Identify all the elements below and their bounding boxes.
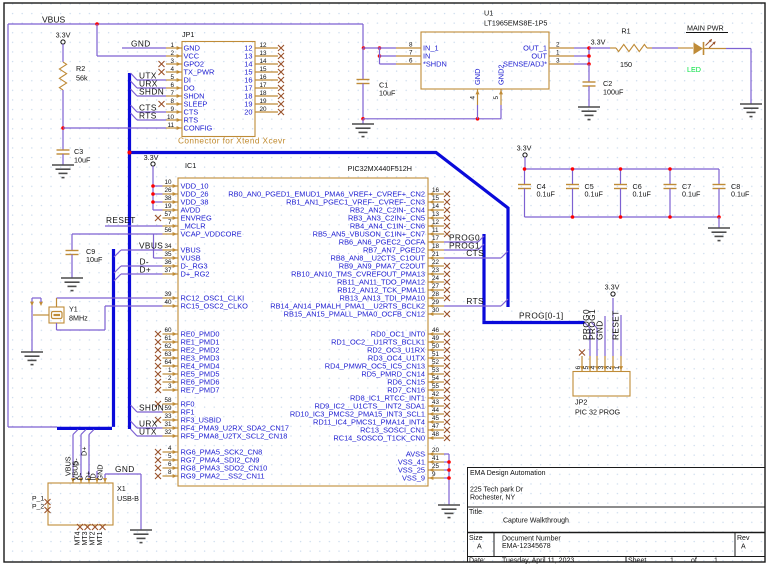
svg-text:19: 19	[164, 203, 172, 210]
svg-text:Rochester, NY: Rochester, NY	[470, 495, 515, 502]
svg-text:1: 1	[168, 367, 172, 374]
svg-text:52: 52	[432, 359, 440, 366]
svg-text:GND: GND	[595, 320, 605, 340]
svg-text:Y1: Y1	[69, 305, 78, 314]
svg-text:38: 38	[164, 195, 172, 202]
svg-text:GND: GND	[131, 39, 151, 49]
svg-text:Connector for Xtend Xcevr: Connector for Xtend Xcevr	[178, 136, 286, 146]
svg-text:5: 5	[168, 453, 172, 460]
svg-text:29: 29	[432, 299, 440, 306]
svg-text:16: 16	[432, 187, 440, 194]
svg-text:35: 35	[164, 251, 172, 258]
svg-text:37: 37	[164, 267, 172, 274]
svg-text:CTS: CTS	[466, 248, 484, 258]
svg-text:43: 43	[432, 399, 440, 406]
svg-text:PIC32MX440F512H: PIC32MX440F512H	[348, 164, 412, 173]
svg-text:MT3: MT3	[82, 531, 89, 545]
svg-text:Title: Title	[469, 509, 482, 516]
svg-text:49: 49	[432, 335, 440, 342]
svg-text:0.1uF: 0.1uF	[731, 190, 750, 199]
svg-text:17: 17	[259, 82, 267, 89]
svg-text:D-: D-	[72, 458, 81, 466]
svg-text:225 Tech park Dr: 225 Tech park Dr	[470, 487, 524, 494]
svg-text:11: 11	[432, 227, 439, 234]
svg-text:58: 58	[164, 397, 172, 404]
svg-text:42: 42	[432, 391, 440, 398]
svg-text:GND: GND	[96, 465, 105, 481]
svg-text:1: 1	[670, 558, 674, 565]
svg-text:JP1: JP1	[182, 30, 194, 39]
svg-text:56k: 56k	[76, 74, 88, 83]
svg-text:0.1uF: 0.1uF	[585, 190, 604, 199]
svg-text:62: 62	[164, 343, 172, 350]
svg-text:44: 44	[432, 407, 440, 414]
svg-text:11: 11	[167, 122, 174, 129]
svg-text:EMA Design Automation: EMA Design Automation	[470, 470, 546, 477]
svg-text:5: 5	[170, 74, 174, 81]
svg-text:19: 19	[259, 98, 267, 105]
svg-text:EMA-12345678: EMA-12345678	[502, 543, 551, 550]
svg-text:MT4: MT4	[75, 531, 82, 545]
svg-text:53: 53	[432, 367, 440, 374]
svg-text:34: 34	[164, 243, 172, 250]
svg-text:36: 36	[164, 259, 172, 266]
svg-text:Sheet: Sheet	[628, 558, 646, 565]
svg-text:13: 13	[259, 50, 267, 57]
svg-text:2: 2	[556, 42, 560, 49]
svg-text:GND2: GND2	[497, 64, 506, 85]
svg-text:MT2: MT2	[90, 531, 97, 545]
svg-text:3.3V: 3.3V	[144, 153, 159, 162]
svg-text:10: 10	[167, 114, 175, 121]
svg-text:3: 3	[170, 58, 174, 65]
svg-text:SENSE/ADJ*: SENSE/ADJ*	[503, 60, 547, 69]
svg-text:18: 18	[432, 243, 440, 250]
svg-text:RC14_SOSCO_T1CK_CN0: RC14_SOSCO_T1CK_CN0	[333, 434, 425, 443]
svg-text:PROG[0-1]: PROG[0-1]	[519, 311, 564, 321]
svg-text:3.3V: 3.3V	[56, 31, 71, 40]
svg-text:D+_RG2: D+_RG2	[181, 270, 210, 279]
svg-text:18: 18	[259, 90, 267, 97]
svg-text:3: 3	[556, 58, 560, 65]
svg-text:RB15_AN15_PMALL_PMA0_OCFB_CN12: RB15_AN15_PMALL_PMA0_OCFB_CN12	[284, 310, 425, 319]
svg-text:VBUS: VBUS	[139, 241, 163, 251]
svg-text:7: 7	[170, 90, 174, 97]
svg-text:25: 25	[432, 463, 440, 470]
svg-text:21: 21	[432, 251, 440, 258]
svg-text:6: 6	[409, 58, 413, 65]
svg-text:Rev: Rev	[737, 535, 750, 542]
svg-text:27: 27	[432, 283, 440, 290]
svg-text:6: 6	[168, 461, 172, 468]
svg-text:33: 33	[164, 413, 172, 420]
svg-text:23: 23	[432, 267, 440, 274]
svg-text:28: 28	[432, 291, 440, 298]
svg-text:UTX: UTX	[139, 427, 157, 437]
svg-text:45: 45	[432, 415, 440, 422]
svg-text:0.1uF: 0.1uF	[537, 190, 556, 199]
svg-text:of: of	[691, 558, 697, 565]
svg-text:60: 60	[164, 327, 172, 334]
svg-text:R1: R1	[621, 27, 630, 36]
svg-text:9: 9	[432, 471, 436, 478]
svg-text:10: 10	[164, 179, 172, 186]
svg-text:4: 4	[590, 366, 597, 370]
svg-text:17: 17	[432, 235, 440, 242]
svg-text:LT1965EMS8E-1P5: LT1965EMS8E-1P5	[484, 19, 547, 28]
svg-text:A: A	[741, 544, 746, 551]
svg-text:3.3V: 3.3V	[591, 38, 606, 47]
svg-text:0.1uF: 0.1uF	[633, 190, 652, 199]
svg-text:15: 15	[259, 66, 267, 73]
svg-text:30: 30	[432, 307, 440, 314]
svg-text:RG9_PMA2__SS2_CN11: RG9_PMA2__SS2_CN11	[181, 472, 265, 481]
svg-text:1: 1	[556, 50, 560, 57]
svg-text:IC1: IC1	[185, 161, 196, 170]
svg-text:SHDN: SHDN	[139, 403, 164, 413]
svg-text:50: 50	[432, 343, 440, 350]
svg-text:5: 5	[493, 96, 500, 100]
svg-text:51: 51	[432, 351, 440, 358]
svg-text:24: 24	[432, 275, 440, 282]
svg-text:8MHz: 8MHz	[69, 314, 88, 323]
svg-text:5: 5	[583, 366, 590, 370]
svg-text:RF5_PMA8_U2TX_SCL2_CN18: RF5_PMA8_U2TX_SCL2_CN18	[181, 432, 288, 441]
svg-text:1: 1	[170, 42, 174, 49]
svg-text:20: 20	[244, 108, 252, 117]
svg-text:1: 1	[614, 366, 621, 370]
svg-text:14: 14	[432, 203, 440, 210]
svg-text:4: 4	[470, 96, 477, 100]
svg-text:48: 48	[432, 431, 440, 438]
svg-text:RESET: RESET	[611, 310, 621, 340]
svg-text:Capture Walkthrough: Capture Walkthrough	[503, 518, 569, 525]
svg-text:59: 59	[164, 405, 172, 412]
svg-text:JP2: JP2	[575, 398, 587, 407]
svg-text:3.3V: 3.3V	[605, 283, 620, 292]
svg-text:55: 55	[432, 383, 440, 390]
svg-text:10uF: 10uF	[379, 89, 396, 98]
svg-text:0.1uF: 0.1uF	[682, 190, 701, 199]
svg-text:61: 61	[164, 335, 172, 342]
svg-text:SHDN: SHDN	[139, 87, 164, 97]
svg-text:39: 39	[164, 291, 172, 298]
svg-text:6: 6	[170, 82, 174, 89]
svg-text:CONFIG: CONFIG	[184, 124, 213, 133]
svg-text:2: 2	[168, 375, 172, 382]
svg-text:63: 63	[164, 351, 172, 358]
svg-text:GND: GND	[115, 464, 135, 474]
svg-text:31: 31	[164, 421, 172, 428]
svg-text:12: 12	[432, 219, 440, 226]
svg-text:10uF: 10uF	[86, 255, 103, 264]
svg-text:PIC 32 PROG: PIC 32 PROG	[575, 408, 621, 417]
svg-text:GND: GND	[473, 69, 482, 85]
svg-text:16: 16	[259, 74, 267, 81]
svg-text:MT1: MT1	[97, 531, 104, 545]
svg-text:*SHDN: *SHDN	[423, 60, 447, 69]
svg-text:8: 8	[409, 42, 413, 49]
svg-text:20: 20	[259, 106, 267, 113]
svg-text:12: 12	[259, 42, 267, 49]
svg-text:41: 41	[432, 455, 440, 462]
svg-text:RTS: RTS	[466, 296, 484, 306]
svg-text:1: 1	[714, 558, 718, 565]
svg-text:Size: Size	[469, 535, 483, 542]
svg-text:54: 54	[432, 375, 440, 382]
svg-text:RTS: RTS	[139, 111, 157, 121]
svg-text:RE7_PMD7: RE7_PMD7	[181, 386, 220, 395]
svg-text:A: A	[477, 544, 482, 551]
svg-text:3.3V: 3.3V	[517, 144, 532, 153]
svg-text:2: 2	[170, 50, 174, 57]
svg-text:MAIN PWR: MAIN PWR	[687, 24, 724, 33]
svg-text:Date:: Date:	[469, 558, 486, 565]
svg-text:32: 32	[164, 429, 172, 436]
svg-text:4: 4	[170, 66, 174, 73]
svg-text:150: 150	[620, 60, 632, 69]
svg-text:7: 7	[168, 219, 172, 226]
svg-text:56: 56	[164, 227, 172, 234]
svg-text:P_1: P_1	[32, 496, 44, 503]
svg-text:P_2: P_2	[32, 504, 44, 511]
svg-text:3: 3	[598, 366, 605, 370]
svg-text:3: 3	[168, 383, 172, 390]
svg-text:13: 13	[432, 211, 440, 218]
svg-text:8: 8	[168, 469, 172, 476]
svg-text:47: 47	[432, 423, 440, 430]
svg-text:26: 26	[164, 187, 172, 194]
svg-text:57: 57	[164, 211, 172, 218]
svg-text:VBUS: VBUS	[42, 15, 65, 25]
svg-text:RESET: RESET	[106, 215, 136, 225]
svg-text:U1: U1	[484, 9, 493, 18]
svg-text:20: 20	[432, 447, 440, 454]
svg-text:64: 64	[164, 359, 172, 366]
svg-text:VCAP_VDDCORE: VCAP_VDDCORE	[181, 230, 242, 239]
svg-text:40: 40	[164, 299, 172, 306]
svg-text:USB-B: USB-B	[117, 494, 139, 503]
svg-text:Document Number: Document Number	[502, 536, 561, 543]
svg-text:X1: X1	[117, 484, 126, 493]
svg-text:9: 9	[170, 106, 174, 113]
svg-text:LED: LED	[687, 65, 701, 74]
svg-text:22: 22	[432, 259, 440, 266]
svg-text:100uF: 100uF	[603, 88, 624, 97]
svg-text:46: 46	[432, 327, 440, 334]
svg-text:8: 8	[170, 98, 174, 105]
svg-text:R2: R2	[76, 64, 85, 73]
svg-text:14: 14	[259, 58, 267, 65]
svg-text:15: 15	[432, 195, 440, 202]
svg-text:2: 2	[606, 366, 613, 370]
svg-text:6: 6	[575, 366, 582, 370]
svg-text:10uF: 10uF	[74, 156, 91, 165]
svg-text:VSS_9: VSS_9	[402, 474, 425, 483]
svg-text:RC15_OSC2_CLKO: RC15_OSC2_CLKO	[181, 302, 249, 311]
svg-text:D+: D+	[80, 447, 89, 456]
svg-text:4: 4	[168, 445, 172, 452]
svg-text:7: 7	[409, 50, 413, 57]
svg-text:D+: D+	[140, 265, 152, 275]
svg-text:Tuesday, April 11, 2023: Tuesday, April 11, 2023	[502, 558, 574, 565]
